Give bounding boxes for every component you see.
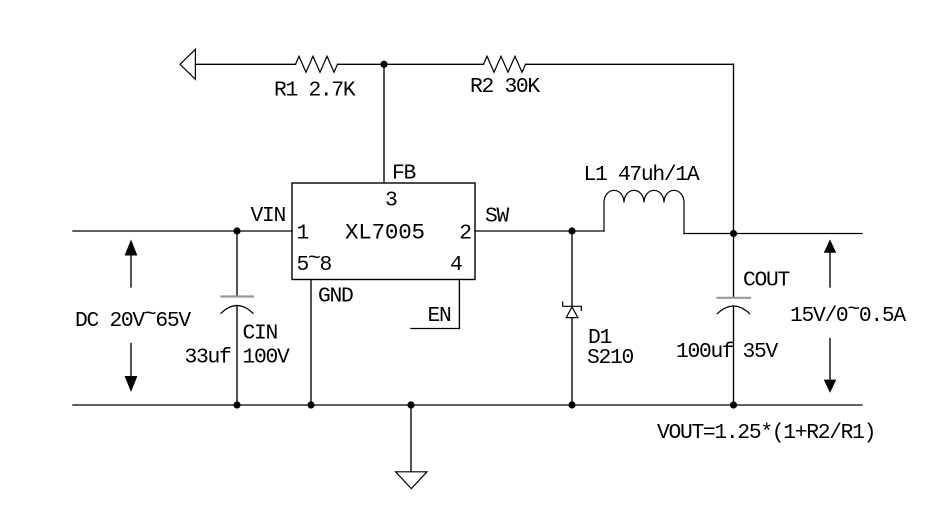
svg-text:3: 3 bbox=[385, 189, 397, 213]
svg-text:XL7005: XL7005 bbox=[345, 220, 425, 246]
wire bottom rail bbox=[73, 404, 862, 406]
svg-text:100V: 100V bbox=[243, 346, 290, 370]
ground bbox=[396, 405, 427, 489]
svg-text:4: 4 bbox=[450, 253, 462, 277]
svg-text:1: 1 bbox=[297, 222, 309, 246]
wire input rail bbox=[73, 230, 292, 232]
svg-text:33uf: 33uf bbox=[185, 346, 231, 370]
node bottom CIN bbox=[233, 401, 240, 408]
capacitor CIN bbox=[221, 231, 253, 405]
svg-text:L1 47uh/1A: L1 47uh/1A bbox=[584, 163, 700, 187]
node bottom COUT bbox=[730, 401, 737, 408]
diode D1 S210 bbox=[563, 231, 582, 405]
svg-text:R2 30K: R2 30K bbox=[470, 75, 540, 99]
wire bbox=[195, 63, 295, 65]
wire output rail bbox=[684, 233, 862, 235]
wire GND pin bbox=[310, 280, 312, 406]
DC input arrow bbox=[125, 240, 138, 393]
node bottom D1 bbox=[568, 401, 575, 408]
node CIN junction bbox=[233, 227, 240, 234]
svg-text:2: 2 bbox=[459, 222, 471, 246]
resistor R1 bbox=[296, 56, 338, 72]
svg-text:35V: 35V bbox=[743, 340, 779, 364]
svg-text:VIN: VIN bbox=[251, 204, 286, 228]
wire pin 4 bbox=[458, 280, 460, 329]
node D1 junction bbox=[568, 227, 575, 234]
svg-text:CIN: CIN bbox=[243, 322, 278, 346]
svg-text:VOUT=1.25*(1+R2/R1): VOUT=1.25*(1+R2/R1) bbox=[657, 421, 875, 445]
wire EN stub bbox=[411, 328, 459, 330]
wire bbox=[733, 64, 735, 233]
svg-text:GND: GND bbox=[318, 285, 353, 309]
resistor R2 bbox=[484, 56, 526, 72]
wire SW bbox=[475, 230, 604, 232]
inductor L1 bbox=[604, 190, 684, 233]
net arrow feedback out bbox=[180, 49, 195, 79]
svg-text:FB: FB bbox=[392, 162, 415, 186]
IC U1 XL7005 body bbox=[292, 183, 475, 280]
svg-text:R1 2.7K: R1 2.7K bbox=[274, 79, 356, 103]
svg-text:S210: S210 bbox=[587, 346, 633, 370]
svg-text:100uf: 100uf bbox=[676, 340, 734, 364]
wire bbox=[384, 63, 484, 65]
wire bbox=[338, 63, 385, 65]
output arrow 15V bbox=[824, 239, 836, 393]
capacitor COUT bbox=[717, 234, 750, 406]
node FB junction bbox=[380, 61, 387, 68]
svg-text:SW: SW bbox=[485, 205, 509, 229]
node bottom earth bbox=[407, 401, 414, 408]
svg-text:COUT: COUT bbox=[743, 269, 789, 293]
wire bbox=[526, 63, 734, 65]
wire FB pin 3 bbox=[383, 64, 385, 183]
node COUT junction bbox=[730, 230, 737, 237]
node bottom GND pin bbox=[307, 401, 314, 408]
svg-text:EN: EN bbox=[428, 304, 451, 328]
